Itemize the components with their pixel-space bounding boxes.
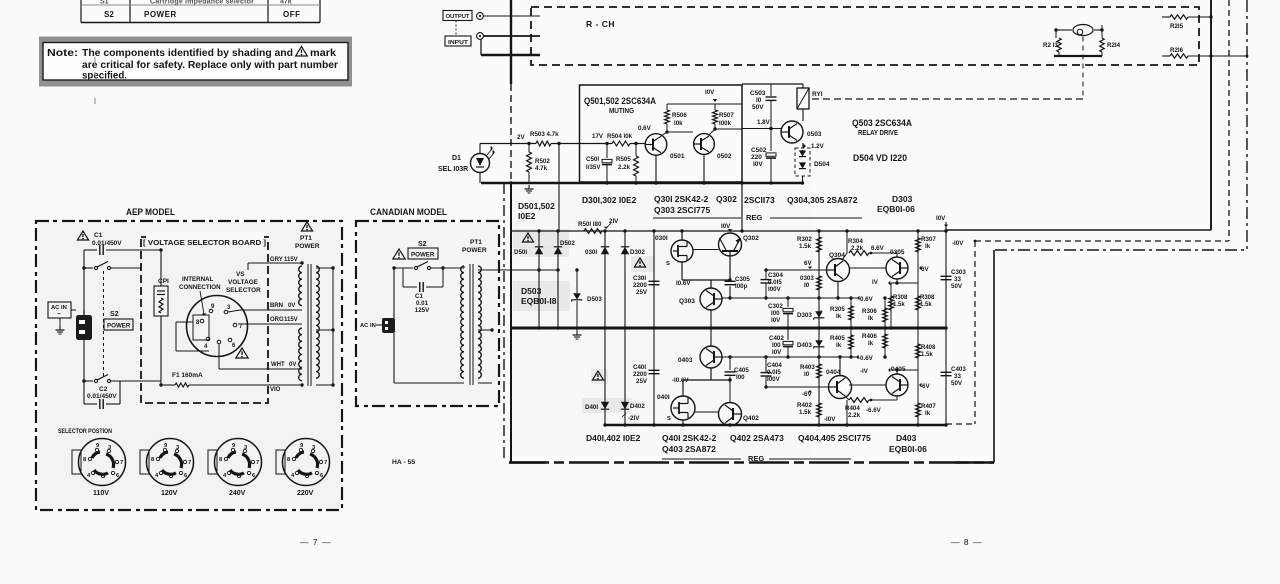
svg-text:R304: R304 [848, 238, 863, 245]
svg-text:are critical for safety. Repl: are critical for safety. Replace only wi… [82, 60, 338, 71]
svg-text:-IV: -IV [860, 368, 869, 375]
svg-text:0.0I5: 0.0I5 [767, 369, 781, 376]
svg-text:F1 160mA: F1 160mA [172, 372, 203, 379]
svg-text:R406: R406 [862, 333, 877, 340]
svg-text:POWER: POWER [411, 252, 435, 259]
svg-text:17V: 17V [592, 133, 604, 140]
svg-text:I00p: I00p [735, 283, 748, 290]
svg-text:Ik: Ik [868, 340, 874, 347]
svg-text:SELECTOR: SELECTOR [226, 287, 261, 294]
svg-text:OFF: OFF [283, 10, 301, 19]
svg-text:33: 33 [954, 373, 961, 380]
svg-text:25V: 25V [636, 289, 648, 296]
svg-text:R505: R505 [616, 156, 631, 163]
svg-text:INTERNAL: INTERNAL [182, 276, 213, 283]
svg-text:D501,502: D501,502 [518, 201, 555, 211]
svg-text:R308: R308 [920, 295, 935, 301]
svg-text:OUTPUT: OUTPUT [446, 14, 470, 20]
svg-text:0.01/450V: 0.01/450V [92, 240, 122, 247]
svg-text:D50I: D50I [514, 249, 527, 256]
svg-text:I0.6V: I0.6V [676, 280, 691, 287]
svg-text:-6V: -6V [920, 383, 931, 390]
svg-text:0V: 0V [289, 362, 296, 368]
svg-text:Q30I 2SK42-2: Q30I 2SK42-2 [654, 194, 709, 204]
svg-text:-6.6V: -6.6V [866, 407, 882, 414]
svg-text:I00: I00 [736, 374, 745, 381]
svg-text:D1: D1 [452, 155, 461, 162]
svg-text:2.2k: 2.2k [851, 245, 864, 252]
svg-text:C503: C503 [750, 90, 766, 97]
svg-text:VOLTAGE: VOLTAGE [228, 279, 259, 286]
svg-text:GRY: GRY [270, 257, 283, 263]
svg-text:R506: R506 [672, 112, 687, 119]
svg-text:-I0.6V: -I0.6V [672, 377, 689, 384]
svg-text:D503: D503 [587, 296, 602, 303]
svg-text:R2I5: R2I5 [1170, 23, 1184, 30]
svg-text:Ik: Ik [836, 313, 842, 320]
svg-text:POWER: POWER [295, 243, 320, 250]
svg-text:1.5k: 1.5k [921, 352, 933, 358]
svg-text:D403: D403 [896, 433, 917, 443]
svg-text:C303: C303 [951, 269, 966, 276]
svg-text:C404: C404 [767, 362, 782, 369]
svg-text:PT1: PT1 [300, 235, 312, 242]
svg-text:7: 7 [256, 460, 259, 466]
svg-text:I0: I0 [804, 371, 810, 378]
svg-text:I00: I00 [772, 342, 781, 349]
svg-text:-I0V: -I0V [824, 416, 836, 423]
svg-text:7: 7 [324, 460, 327, 466]
svg-text:REG: REG [746, 213, 762, 222]
svg-text:C1: C1 [415, 293, 423, 300]
svg-text:AEP MODEL: AEP MODEL [126, 207, 175, 217]
svg-text:1.2V: 1.2V [811, 143, 825, 150]
svg-text:Q303 2SCI775: Q303 2SCI775 [654, 205, 711, 215]
svg-text:I0V: I0V [753, 161, 763, 168]
svg-text:Q404,405 2SCI775: Q404,405 2SCI775 [798, 433, 871, 443]
svg-text:0403: 0403 [678, 357, 693, 364]
svg-text:Note:: Note: [47, 48, 78, 59]
svg-text:R50I I80: R50I I80 [578, 221, 602, 228]
svg-text:S2: S2 [104, 10, 114, 19]
svg-text:110V: 110V [93, 490, 109, 497]
svg-text:D302: D302 [630, 249, 645, 256]
svg-text:C502: C502 [751, 147, 767, 154]
svg-text:RELAY DRIVE: RELAY DRIVE [858, 130, 898, 137]
svg-text:2.2k: 2.2k [848, 412, 861, 419]
svg-text:0V: 0V [288, 303, 295, 309]
svg-text:Ik: Ik [868, 315, 874, 322]
svg-text:Q303: Q303 [679, 298, 695, 305]
svg-text:Ik: Ik [925, 410, 931, 417]
svg-text:VS: VS [236, 271, 245, 278]
svg-text:25V: 25V [636, 378, 648, 385]
svg-text:— 7 —: — 7 — [300, 537, 331, 547]
svg-text:CPI: CPI [158, 278, 169, 285]
svg-text:2V: 2V [517, 134, 525, 141]
svg-text:Q402 2SA473: Q402 2SA473 [730, 433, 784, 443]
svg-text:0.6V: 0.6V [860, 296, 874, 303]
svg-text:D504: D504 [814, 161, 830, 168]
svg-text:R405: R405 [830, 335, 845, 342]
svg-text:115V: 115V [284, 257, 298, 263]
svg-text:R507: R507 [719, 112, 734, 119]
svg-text:R305: R305 [830, 306, 845, 313]
svg-text:220: 220 [751, 154, 762, 161]
svg-text:50V: 50V [752, 104, 764, 111]
svg-text:C403: C403 [951, 366, 966, 373]
svg-text:C50I: C50I [586, 156, 599, 163]
svg-text:I0V: I0V [772, 349, 782, 356]
svg-text:R2I4: R2I4 [1107, 42, 1121, 49]
svg-text:I0V: I0V [936, 215, 946, 222]
svg-text:2SCII73: 2SCII73 [744, 195, 775, 205]
svg-text:I0V: I0V [771, 317, 781, 324]
svg-text:R408: R408 [921, 345, 936, 351]
svg-text:I0E2: I0E2 [518, 211, 536, 221]
svg-text:D303: D303 [797, 312, 812, 319]
svg-text:R308: R308 [893, 295, 908, 301]
svg-text:Q302: Q302 [716, 194, 737, 204]
svg-text:Q304,305 2SA872: Q304,305 2SA872 [787, 195, 858, 205]
svg-text:0.6V: 0.6V [638, 125, 652, 132]
svg-text:INPUT: INPUT [448, 40, 468, 46]
svg-text:2200: 2200 [633, 282, 647, 289]
svg-text:C1: C1 [94, 232, 103, 239]
svg-text:Q302: Q302 [743, 235, 759, 242]
svg-text:~: ~ [57, 311, 61, 318]
svg-text:R502: R502 [535, 158, 550, 165]
svg-text:1.5k: 1.5k [799, 243, 812, 250]
svg-text:WHT: WHT [271, 362, 285, 368]
svg-text:RYI: RYI [812, 91, 823, 98]
svg-text:Ik: Ik [836, 342, 842, 349]
svg-text:R504 I0k: R504 I0k [607, 133, 633, 140]
svg-text:1.8V: 1.8V [757, 119, 771, 126]
svg-text:ORG: ORG [270, 317, 284, 323]
svg-text:POWER: POWER [107, 323, 131, 330]
svg-text:030I: 030I [585, 249, 597, 256]
svg-text:1.5k: 1.5k [799, 409, 812, 416]
svg-text:SEL I03R: SEL I03R [438, 166, 468, 173]
svg-text:R307: R307 [921, 236, 936, 243]
svg-text:C402: C402 [769, 335, 784, 342]
svg-text:HA - 55: HA - 55 [392, 459, 415, 466]
svg-text:I/35V: I/35V [586, 164, 601, 171]
svg-text:I0V: I0V [705, 89, 715, 96]
svg-text:EQB0I-06: EQB0I-06 [877, 204, 915, 214]
svg-text:240V: 240V [229, 490, 246, 497]
svg-text:CANADIAN MODEL: CANADIAN MODEL [370, 207, 447, 217]
svg-text:R - CH: R - CH [586, 19, 615, 29]
svg-text:The components identified by s: The components identified by shading and [82, 48, 293, 59]
svg-text:0.01/450V: 0.01/450V [87, 393, 117, 400]
svg-text:Q402: Q402 [743, 415, 759, 422]
svg-text:4.7k: 4.7k [535, 165, 548, 172]
svg-text:POWER: POWER [462, 247, 487, 254]
svg-text:D30I,302 I0E2: D30I,302 I0E2 [582, 195, 637, 205]
svg-text:BRN: BRN [270, 303, 283, 309]
svg-text:C302: C302 [768, 303, 783, 310]
svg-text:VIO: VIO [270, 387, 281, 393]
svg-text:50V: 50V [951, 380, 963, 387]
svg-text:R503 4.7k: R503 4.7k [530, 131, 559, 138]
svg-text:-0.6V: -0.6V [858, 355, 874, 362]
svg-text:D402: D402 [630, 403, 645, 410]
svg-text:MUTING: MUTING [609, 108, 635, 115]
svg-text:Ik: Ik [925, 243, 931, 250]
svg-text:R2I6: R2I6 [1170, 47, 1184, 54]
svg-text:-I0V: -I0V [952, 240, 964, 247]
svg-text:PT1: PT1 [470, 239, 482, 246]
svg-text:C305: C305 [735, 276, 750, 283]
svg-text:47k: 47k [280, 0, 292, 6]
svg-text:D303: D303 [892, 194, 913, 204]
svg-text:Q40I 2SK42-2: Q40I 2SK42-2 [662, 433, 717, 443]
svg-text:I00V: I00V [768, 286, 782, 293]
svg-text:IV: IV [872, 279, 879, 286]
svg-text:0501: 0501 [670, 153, 685, 160]
svg-text:specified.: specified. [82, 71, 127, 82]
svg-text:6V: 6V [804, 260, 812, 267]
svg-text:R402: R402 [797, 402, 812, 409]
svg-text:0303: 0303 [800, 275, 814, 282]
svg-text:R306: R306 [862, 308, 877, 315]
svg-text:030I: 030I [655, 235, 668, 242]
svg-text:POWER: POWER [144, 10, 177, 19]
svg-text:I0: I0 [756, 97, 762, 104]
svg-text:Q403 2SA872: Q403 2SA872 [662, 444, 716, 454]
svg-text:-2IV: -2IV [628, 415, 640, 422]
svg-text:7: 7 [188, 460, 191, 466]
svg-text:D40I,402 I0E2: D40I,402 I0E2 [586, 433, 641, 443]
svg-text:S: S [667, 416, 671, 422]
svg-text:S1: S1 [100, 0, 109, 6]
svg-text:I00: I00 [771, 310, 780, 317]
svg-text:50V: 50V [951, 283, 963, 290]
svg-text:33: 33 [954, 276, 961, 283]
svg-text:C40I: C40I [633, 364, 646, 371]
svg-text:0305: 0305 [890, 249, 905, 256]
svg-text:I0: I0 [804, 282, 810, 289]
svg-text:SELECTOR POSTION: SELECTOR POSTION [58, 428, 112, 435]
svg-text:6V: 6V [921, 266, 929, 273]
svg-text:C405: C405 [734, 367, 749, 374]
svg-text:0.0I5: 0.0I5 [768, 279, 782, 286]
svg-text:S2: S2 [110, 311, 119, 318]
svg-text:Q503 2SC634A: Q503 2SC634A [852, 118, 912, 128]
svg-text:D40I: D40I [585, 404, 598, 411]
svg-text:1.5k: 1.5k [893, 302, 905, 308]
svg-text:2.2k: 2.2k [618, 164, 631, 171]
svg-text:I0k: I0k [674, 120, 683, 127]
svg-text:— 8 —: — 8 — [951, 537, 982, 547]
svg-text:D503: D503 [521, 286, 542, 296]
svg-text:0.01: 0.01 [416, 300, 429, 307]
svg-text:115V: 115V [284, 317, 298, 323]
svg-text:S2: S2 [418, 241, 427, 248]
svg-text:1.5k: 1.5k [920, 302, 932, 308]
svg-text:R302: R302 [797, 236, 812, 243]
svg-text:Cartridge impedance selector: Cartridge impedance selector [150, 0, 254, 6]
svg-text:I0V: I0V [721, 223, 731, 230]
svg-text:R2 I3: R2 I3 [1043, 42, 1058, 49]
svg-text:0503: 0503 [807, 131, 822, 138]
svg-text:6.6V: 6.6V [871, 245, 885, 252]
svg-text:C2: C2 [99, 386, 108, 393]
svg-text:CONNECTION: CONNECTION [179, 284, 221, 291]
svg-text:I00k: I00k [719, 120, 732, 127]
svg-text:2200: 2200 [633, 371, 647, 378]
svg-text:220V: 220V [297, 490, 314, 497]
svg-text:R403: R403 [800, 364, 815, 371]
svg-text:C30I: C30I [633, 275, 646, 282]
svg-text:R407: R407 [921, 403, 936, 410]
svg-text:120V: 120V [161, 490, 178, 497]
svg-text:S: S [666, 261, 670, 267]
svg-text:C304: C304 [768, 272, 783, 279]
svg-text:Q501,502 2SC634A: Q501,502 2SC634A [584, 96, 656, 106]
svg-text:D504 VD I220: D504 VD I220 [853, 153, 907, 163]
svg-text:REG: REG [748, 454, 764, 463]
svg-text:AC IN: AC IN [360, 323, 376, 329]
svg-text:I00V: I00V [767, 376, 781, 383]
svg-text:mark: mark [310, 48, 336, 59]
svg-text:0502: 0502 [717, 153, 732, 160]
svg-text:7: 7 [120, 460, 123, 466]
svg-text:[ VOLTAGE SELECTOR BOARD ]: [ VOLTAGE SELECTOR BOARD ] [143, 238, 266, 247]
svg-text:D403: D403 [797, 342, 812, 349]
svg-text:125V: 125V [415, 307, 430, 314]
svg-text:D502: D502 [560, 240, 575, 247]
svg-text:EQB0I-I8: EQB0I-I8 [521, 296, 557, 306]
svg-text:040I: 040I [657, 394, 670, 401]
svg-text:EQB0I-06: EQB0I-06 [889, 444, 927, 454]
